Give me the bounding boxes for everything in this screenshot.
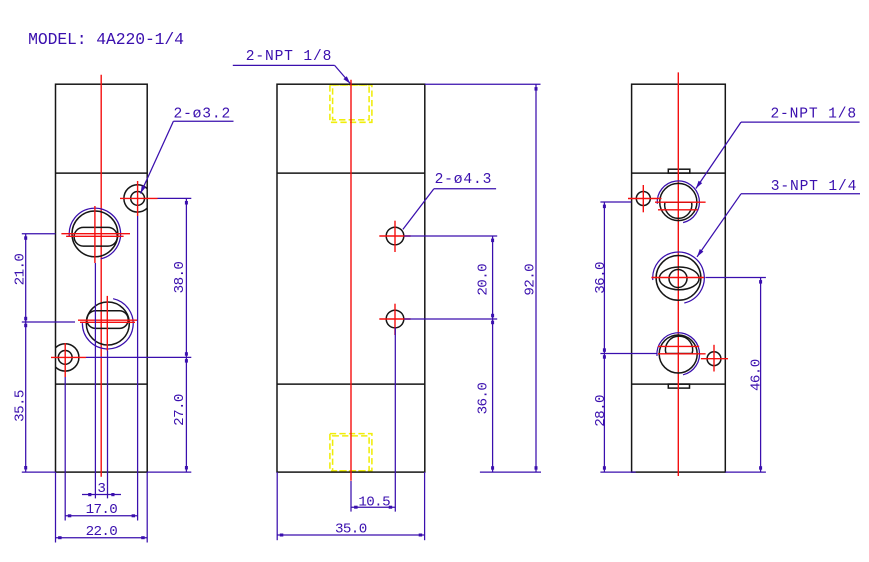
port P2 thread arc blue — [653, 252, 705, 303]
dim left ext y=322 — [22, 321, 75, 323]
svg-text:35.5: 35.5 — [13, 390, 29, 422]
hole H2 inner circle — [58, 351, 72, 365]
hole H1 crosshair vertical — [137, 181, 139, 216]
svg-text:35.0: 35.0 — [335, 522, 367, 538]
hole H1 inner circle — [131, 192, 145, 206]
label R 3-NPT 1/4 leader — [697, 194, 741, 257]
port P3 thread arc blue — [657, 333, 700, 375]
port P2 ellipse — [659, 267, 699, 290]
dim right ext y=198.4 — [158, 197, 192, 199]
port P1 crosshair horizontal 2 — [658, 209, 698, 211]
dim text 46.0 — [749, 359, 765, 391]
dim left chain line 21.0/35.5 — [25, 234, 27, 472]
hole RR circle — [707, 352, 721, 366]
hole H2 crosshair horizontal — [51, 356, 86, 358]
bottom ext horizontal y=471 left part — [22, 471, 56, 473]
ext vertical from screw S1 center — [94, 263, 96, 498]
dim 35.0 line — [277, 534, 424, 536]
dim mid ext y=319 — [404, 318, 497, 320]
label 2-dia3.2 underline — [173, 120, 233, 122]
dim 20.0/36.0 chain line — [492, 236, 494, 472]
label R 2-NPT 1/8 leader — [696, 122, 741, 188]
body outline left view — [56, 84, 148, 472]
dim R right ext y=277.5 — [705, 277, 766, 279]
label R 2-NPT 1/8 arrowhead — [696, 181, 702, 189]
label R 2-NPT 1/8 underline — [741, 121, 860, 123]
dim right tick bottom — [185, 466, 188, 470]
hole M2 crosshair horizontal — [379, 318, 410, 320]
hole M2 crosshair vertical — [394, 304, 396, 335]
label 2-NPT 1/8 underline — [233, 64, 335, 66]
dim right tick top — [185, 201, 188, 205]
dim 22.0 ticks — [58, 536, 62, 539]
dim right ext y=357.4 — [86, 356, 191, 358]
dim R left ext y=470.7 — [600, 471, 635, 473]
ext vertical from hole H2 — [64, 377, 66, 521]
svg-text:2-NPT 1/8: 2-NPT 1/8 — [770, 106, 856, 122]
dim left ext y=233.7 — [22, 233, 56, 235]
port P1 outer circle — [660, 183, 697, 220]
ext vertical body right edge — [146, 472, 148, 542]
dim 3 ticks — [88, 493, 91, 496]
tab upper — [668, 169, 690, 173]
dim text 36.0 middle — [476, 383, 492, 415]
label R 3-NPT 1/4 arrowhead — [697, 249, 703, 257]
dim 22.0 line — [56, 537, 148, 539]
screw S2 crosshair horizontal 2 — [80, 321, 135, 323]
svg-text:17.0: 17.0 — [86, 502, 118, 518]
hole RL circle — [636, 192, 650, 206]
dim 10.5 ext from hole column — [394, 328, 396, 512]
label 2-NPT 1/8 arrowhead — [343, 76, 350, 84]
port P1 bowl — [665, 202, 692, 218]
dim mid ext bottom shared — [480, 471, 541, 473]
port NPT bottom hidden square inner — [333, 436, 370, 471]
dim text 92.0 — [522, 264, 538, 296]
screw S2 crosshair vertical — [106, 296, 108, 351]
screw S1 thread arc blue — [69, 208, 120, 259]
screw S1 crosshair horizontal 2 — [66, 235, 124, 237]
screw S1 crosshair vertical — [94, 206, 96, 263]
svg-text:2-NPT 1/8: 2-NPT 1/8 — [246, 49, 332, 65]
dim 46.0 ticks — [759, 280, 762, 284]
dim text 38.0 — [172, 262, 188, 294]
svg-text:36.0: 36.0 — [593, 262, 609, 294]
screw S2 crosshair horizontal 1 — [78, 319, 138, 321]
port P3 outer circle — [659, 335, 697, 373]
section line upper — [632, 172, 726, 174]
dim text 21.0 — [13, 254, 29, 286]
centerline vertical left view — [100, 75, 102, 477]
dim text 36.0 right view — [593, 262, 609, 294]
dim 17.0 ticks — [68, 514, 72, 517]
ext vertical from screw S2 center — [107, 351, 109, 499]
centerline vertical middle view — [350, 80, 352, 481]
hole M1 crosshair vertical — [394, 221, 396, 252]
hole M1 circle — [386, 227, 404, 245]
body outline right view — [632, 84, 726, 472]
port P3 dome — [665, 336, 692, 353]
svg-text:2-ø3.2: 2-ø3.2 — [173, 106, 231, 122]
svg-text:MODEL: 4A220-1/4: MODEL: 4A220-1/4 — [28, 30, 184, 49]
svg-text:22.0: 22.0 — [86, 524, 118, 540]
label 2-NPT 1/8 leader — [335, 65, 351, 83]
body outline middle view — [277, 84, 425, 472]
dim R left ticks — [603, 205, 606, 209]
label 2-dia4.3 leader — [403, 189, 434, 230]
dim right tick mid double — [185, 352, 188, 356]
svg-text:3-NPT 1/4: 3-NPT 1/4 — [771, 179, 857, 195]
dim 36.0/28.0 chain line — [603, 202, 605, 472]
hole RR crosshair horizontal — [701, 358, 728, 360]
svg-text:10.5: 10.5 — [358, 495, 390, 511]
port P3 crosshair horizontal 1 — [658, 345, 699, 347]
label 2-dia3.2 leader — [141, 121, 174, 193]
ext vertical body left edge — [55, 472, 57, 542]
dim R left ext y=202 — [600, 201, 631, 203]
hole RL crosshair vertical — [642, 185, 644, 212]
dim left tick top — [24, 236, 27, 240]
section line upper — [56, 172, 148, 174]
screw S2 thread arc blue — [82, 299, 133, 349]
port P1 thread arc blue — [657, 181, 699, 223]
screw S1 outer circle — [72, 211, 118, 257]
svg-text:38.0: 38.0 — [172, 262, 188, 294]
dim 35.0 ext right — [424, 472, 426, 540]
dim left tick bottom — [24, 466, 27, 470]
dim 3 line — [82, 494, 121, 496]
dim R left ext y=353.5 — [600, 353, 657, 355]
centerline vertical right view — [677, 72, 679, 476]
hole M1 crosshair horizontal — [379, 235, 410, 237]
port NPT bottom hidden square outer — [330, 434, 372, 471]
dim right chain line 38.0/27.0 — [185, 198, 187, 472]
svg-text:3: 3 — [97, 481, 105, 497]
svg-text:36.0: 36.0 — [476, 383, 492, 415]
dim 20/36 ticks — [491, 239, 494, 243]
svg-text:21.0: 21.0 — [13, 254, 29, 286]
hole H1 top-right spotface (clipped) — [124, 185, 151, 212]
dim 46.0 line — [760, 278, 762, 473]
dim R right ext y=470.7 — [725, 471, 766, 473]
label R 3-NPT 1/4 underline — [741, 193, 860, 195]
label 2-dia3.2 arrowhead — [141, 185, 146, 193]
port P2 inner circle — [669, 270, 687, 288]
dim text 27.0 — [172, 394, 188, 426]
hole H1 crosshair horizontal — [120, 197, 158, 199]
section line lower — [277, 383, 425, 385]
hole RL crosshair horizontal — [628, 198, 662, 200]
dim 17.0 line — [65, 515, 137, 517]
dim mid ext y=236 — [404, 235, 497, 237]
dim 35.0 ext left — [276, 472, 278, 540]
bottom ext horizontal y=471 right part — [147, 471, 191, 473]
port NPT top hidden square inner — [333, 85, 370, 120]
screw S1 crosshair horizontal 1 — [61, 233, 130, 235]
port P2 crosshair horizontal — [651, 277, 704, 279]
hole M2 circle — [386, 310, 404, 328]
dim 92.0 ticks — [535, 87, 538, 91]
section line upper — [277, 172, 425, 174]
dim 35.0 ticks — [280, 534, 284, 537]
svg-text:20.0: 20.0 — [476, 264, 492, 296]
svg-text:27.0: 27.0 — [172, 394, 188, 426]
port P3 crosshair horizontal 2 — [658, 353, 706, 355]
svg-text:46.0: 46.0 — [749, 359, 765, 391]
dim 92.0 ext top — [425, 83, 541, 85]
port NPT top hidden square outer — [330, 85, 372, 122]
dim left tick mid double — [24, 317, 27, 321]
screw S2 slot stadium — [87, 311, 128, 329]
dim text 20.0 — [476, 264, 492, 296]
svg-text:28.0: 28.0 — [593, 395, 609, 427]
dim 10.5 ext from centerline — [350, 481, 352, 512]
svg-text:2-ø4.3: 2-ø4.3 — [435, 172, 493, 188]
dim text 35.5 — [13, 390, 29, 422]
screw S2 outer circle — [86, 302, 129, 345]
ext vertical from hole H1 — [137, 216, 139, 521]
section line lower — [632, 383, 726, 385]
svg-text:92.0: 92.0 — [522, 264, 538, 296]
port P1 crosshair horizontal 1 — [655, 201, 706, 203]
tab lower — [668, 384, 689, 388]
section line lower — [56, 383, 148, 385]
dim 10.5 line — [351, 506, 395, 508]
dim 10.5 ticks — [354, 506, 358, 509]
label 2-dia4.3 underline — [434, 188, 496, 190]
port P2 outer circle — [656, 256, 701, 301]
dim 92.0 line — [535, 84, 537, 472]
hole H2 bottom-left spotface (clipped) — [51, 344, 78, 371]
hole RR crosshair vertical — [713, 345, 715, 372]
dim text 28.0 — [593, 395, 609, 427]
screw S1 slot stadium — [74, 227, 117, 246]
hole H2 crosshair vertical — [64, 343, 66, 377]
